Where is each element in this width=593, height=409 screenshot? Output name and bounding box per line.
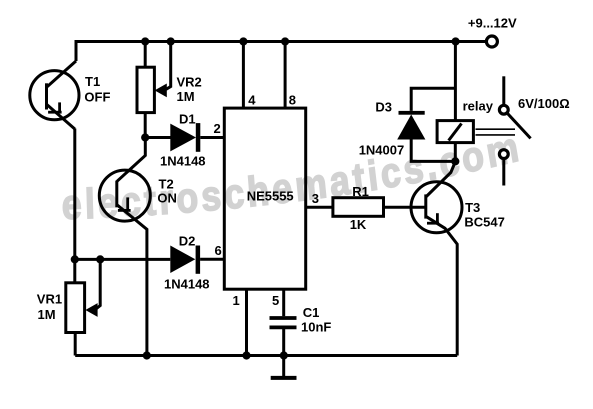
relay linkage lines [476, 128, 516, 130]
transistor T3 BC547 [411, 162, 505, 356]
relay switch contacts 6V/100ohm [499, 76, 569, 185]
svg-text:D2: D2 [179, 234, 196, 249]
svg-text:1N4007: 1N4007 [359, 143, 405, 158]
wire VR2 junction to D1 anode [145, 136, 170, 139]
svg-text:NE5555: NE5555 [247, 189, 294, 204]
svg-text:5: 5 [272, 293, 279, 308]
node top rail / pin 8 [281, 37, 289, 45]
svg-text:T2: T2 [159, 177, 174, 192]
relay coil K1 [437, 99, 494, 162]
svg-text:T3: T3 [465, 200, 480, 215]
svg-text:VR2: VR2 [177, 75, 202, 90]
wire pin 3 to R1 [306, 206, 333, 209]
svg-text:10nF: 10nF [301, 320, 331, 335]
svg-text:3: 3 [312, 191, 319, 206]
svg-text:1: 1 [233, 293, 240, 308]
transistor T1 [30, 61, 111, 129]
svg-text:4: 4 [248, 93, 256, 108]
IC U1 NE5555 timer [224, 108, 305, 289]
svg-text:6V/100Ω: 6V/100Ω [518, 96, 570, 111]
svg-text:1M: 1M [38, 307, 56, 322]
node relay coil / D3 / T3 collector [451, 157, 459, 165]
wire pin 8 to rail [284, 42, 287, 109]
svg-text:D1: D1 [179, 112, 196, 127]
node pin1 / bottom rail [242, 351, 250, 359]
svg-text:D3: D3 [375, 100, 392, 115]
svg-text:8: 8 [289, 93, 296, 108]
node top rail / VR2 [141, 37, 149, 45]
node top rail / relay branch [452, 37, 460, 45]
transistor T2 [99, 139, 177, 356]
node C1 / ground / bottom rail [280, 351, 288, 359]
wire T1/VR1 node to D2 anode [75, 258, 171, 261]
node top rail / VR2 wiper [167, 37, 175, 45]
node VR2 / D1 / T2 collector [141, 133, 149, 141]
svg-text:6: 6 [215, 243, 222, 258]
node top rail / pin 4 [239, 37, 247, 45]
wire T1 collector to top rail [75, 40, 78, 61]
svg-text:2: 2 [214, 121, 221, 136]
wire relay branch from top rail [454, 42, 457, 121]
svg-text:ON: ON [157, 191, 177, 206]
svg-text:relay: relay [463, 99, 494, 114]
wire pin 4 to rail [242, 42, 245, 109]
wire pin 1 to ground rail [245, 289, 248, 355]
VR1 wiper arm [85, 259, 100, 317]
power terminal +9...12V [486, 36, 497, 47]
diode D2 1N4148 [164, 234, 225, 292]
svg-text:+9...12V: +9...12V [468, 16, 517, 31]
wire T1 emitter down to VR1 [73, 129, 76, 283]
svg-text:1N4148: 1N4148 [160, 154, 206, 169]
node VR1 wiper / D2 wire [96, 255, 104, 263]
wire pin 5 to C1 [282, 289, 285, 316]
watermark electroschematics.com [61, 124, 593, 229]
capacitor C1 10nF [270, 305, 332, 356]
diode D3 1N4007 [359, 88, 456, 161]
potentiometer VR2 [137, 42, 202, 138]
diode D1 1N4148 [160, 112, 225, 169]
svg-text:1N4148: 1N4148 [164, 277, 210, 292]
svg-text:1K: 1K [350, 217, 367, 232]
wire R1 to T3 base [384, 206, 426, 209]
svg-text:BC547: BC547 [464, 215, 504, 230]
svg-text:R1: R1 [352, 184, 369, 199]
wire top supply rail [75, 40, 487, 43]
potentiometer VR1 [37, 283, 85, 356]
svg-text:VR1: VR1 [37, 292, 62, 307]
svg-text:1M: 1M [177, 89, 195, 104]
svg-text:OFF: OFF [84, 90, 110, 105]
ground [271, 356, 297, 378]
node T1 emitter / VR1 top / D2 wire [71, 255, 79, 263]
svg-text:T1: T1 [85, 74, 100, 89]
node T2 emitter / bottom rail [143, 351, 151, 359]
resistor R1 1K [333, 184, 384, 232]
wire bottom ground rail [75, 354, 457, 357]
VR2 wiper arm [155, 42, 171, 98]
svg-text:C1: C1 [303, 305, 320, 320]
